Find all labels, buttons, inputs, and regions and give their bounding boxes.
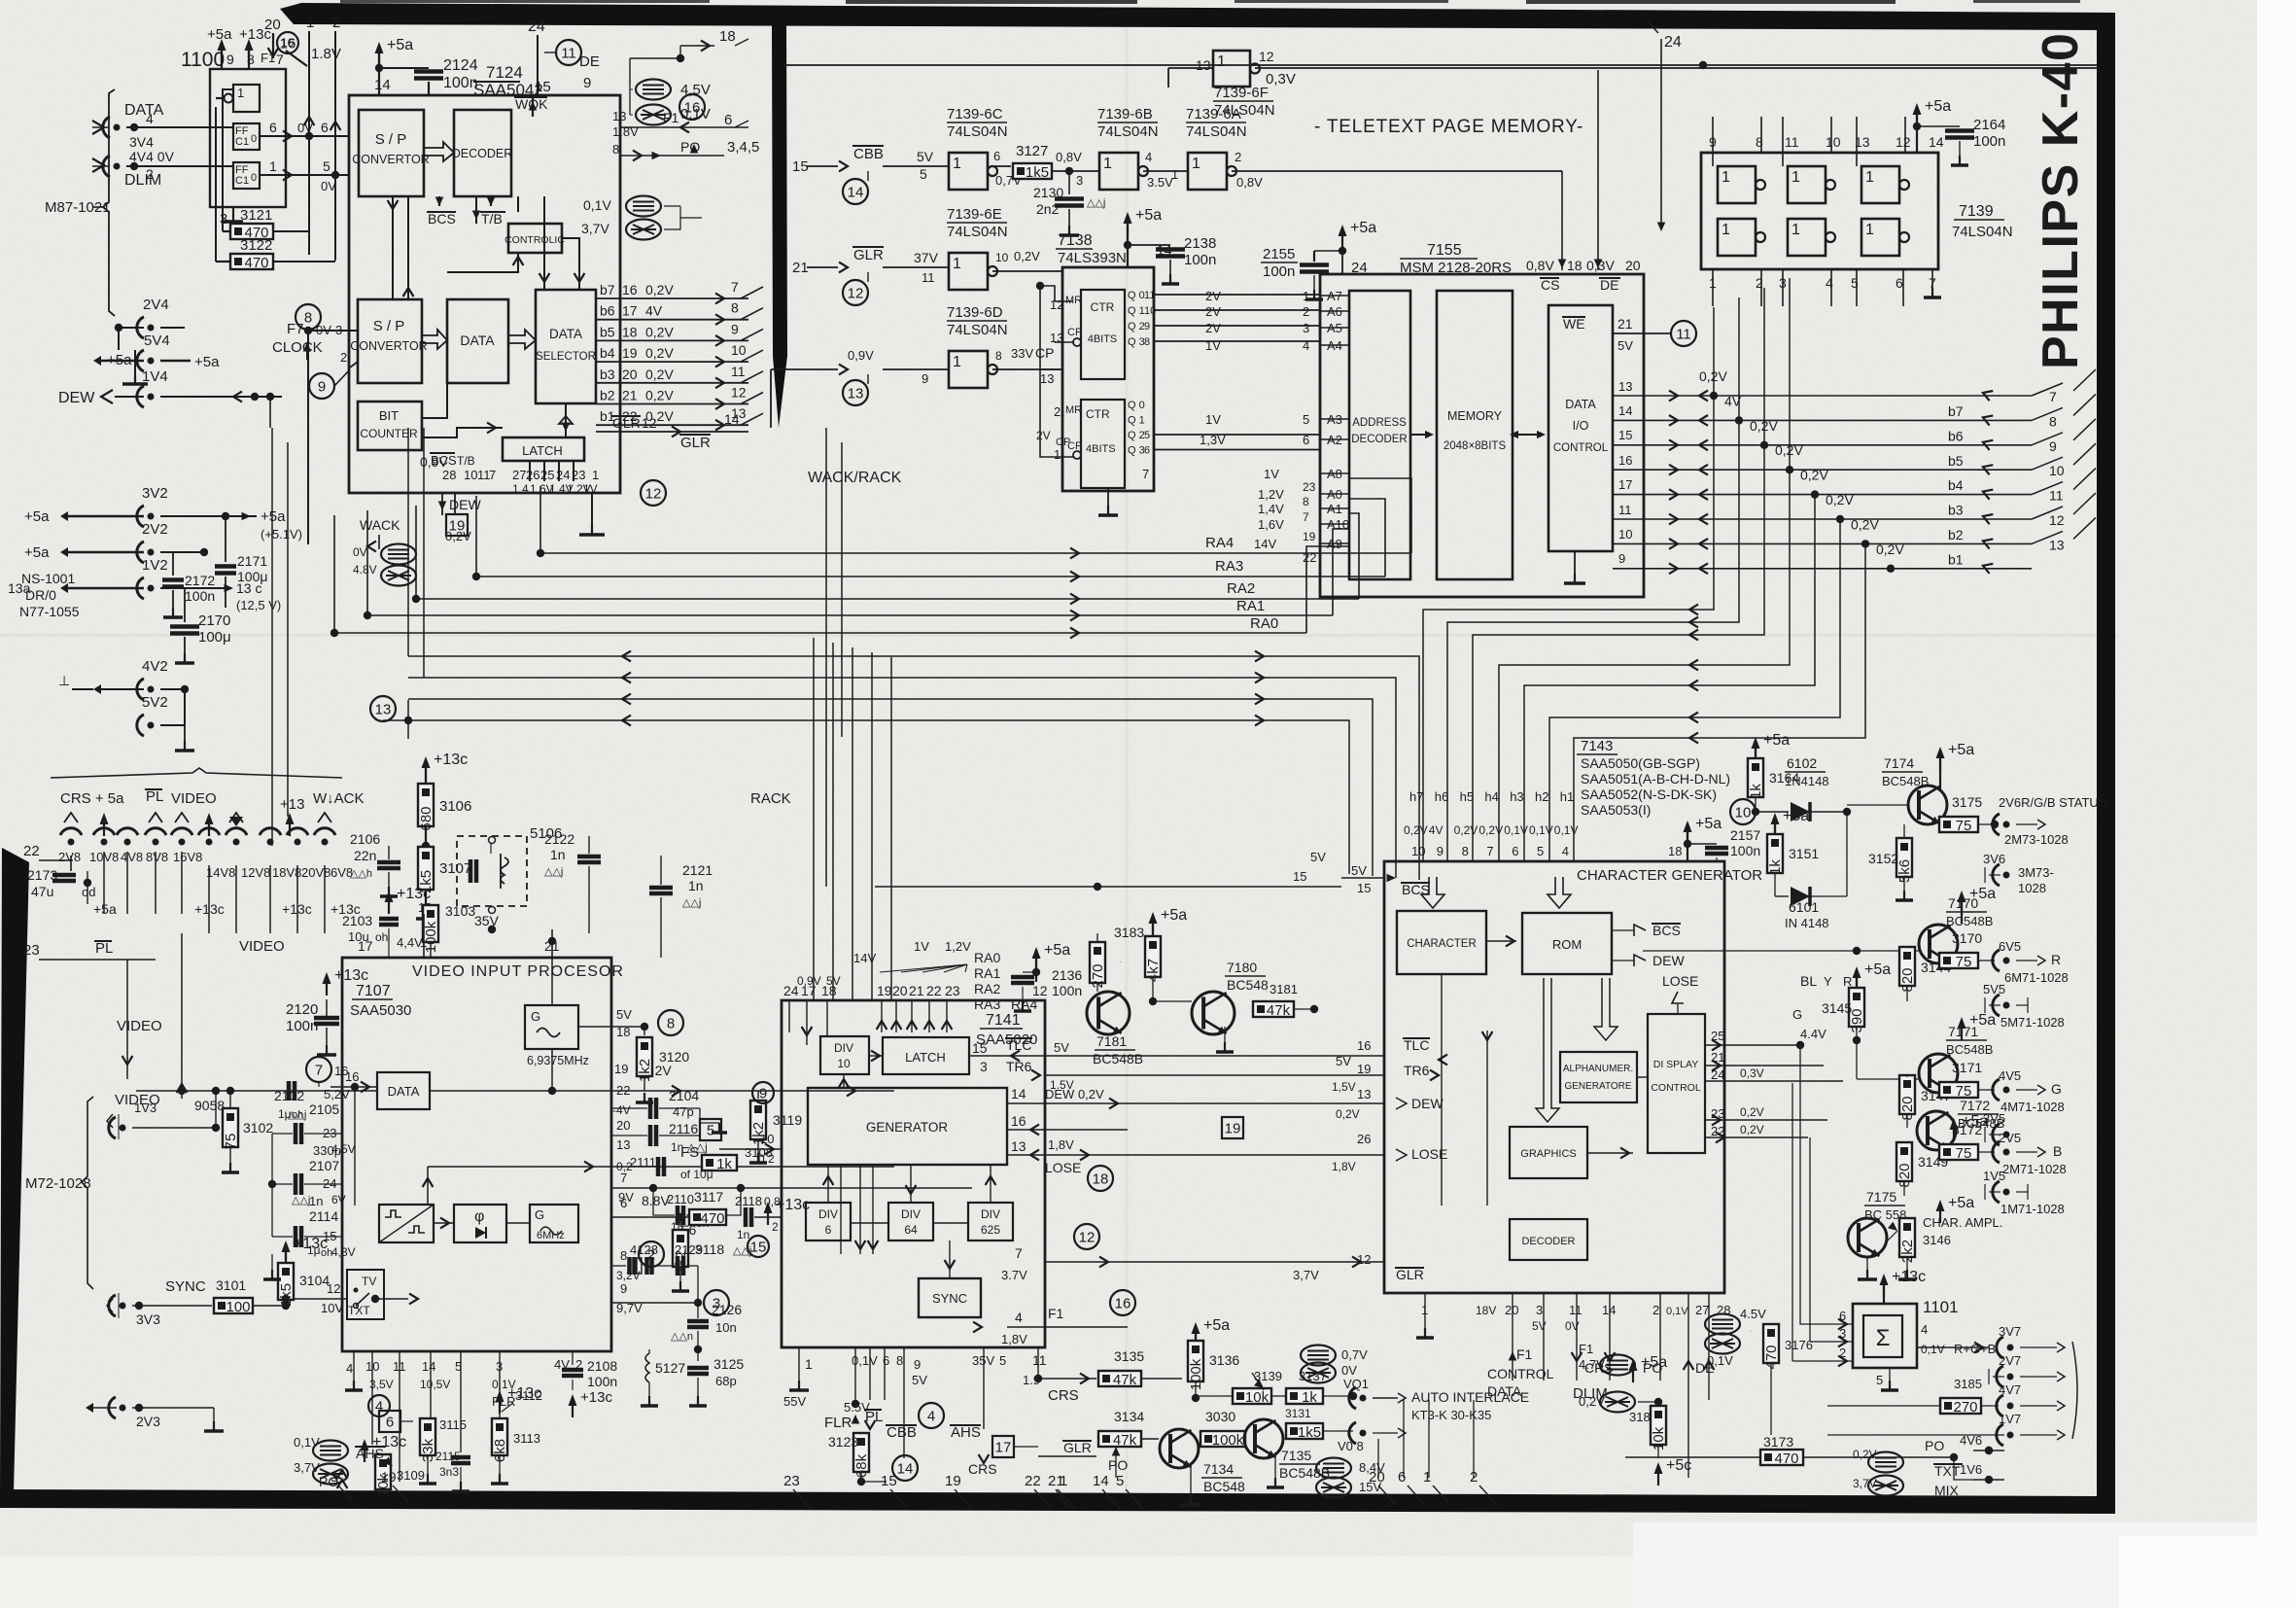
- arrow decoder-memory: [1410, 431, 1434, 438]
- res 3171 75: [1939, 1060, 2065, 1114]
- svg-text:CHAR. AMPL.: CHAR. AMPL.: [1923, 1215, 2002, 1230]
- IC 7155 outline: [1320, 242, 1644, 597]
- svg-text:Y: Y: [1824, 974, 1832, 989]
- svg-text:S / P: S / P: [375, 131, 407, 148]
- svg-text:VIDEO: VIDEO: [171, 790, 217, 807]
- svg-text:14: 14: [897, 1461, 914, 1478]
- svg-text:3,4,5: 3,4,5: [727, 139, 759, 156]
- res 3164 1k: [1730, 732, 1829, 824]
- svg-text:6: 6: [1303, 433, 1309, 447]
- svg-text:+5a: +5a: [1783, 808, 1809, 824]
- svg-text:6: 6: [1144, 445, 1150, 457]
- svg-text:4BITS: 4BITS: [1088, 333, 1118, 345]
- svg-text:7143: 7143: [1581, 738, 1613, 754]
- svg-text:2110: 2110: [667, 1192, 694, 1206]
- svg-text:10: 10: [995, 251, 1009, 264]
- diode 6101: [1775, 812, 1847, 930]
- 2V7 output: [1989, 1353, 2065, 1387]
- svg-text:b4: b4: [1948, 477, 1964, 493]
- svg-text:0,2V: 0,2V: [645, 388, 674, 403]
- svg-text:3: 3: [496, 1359, 503, 1374]
- svg-text:47u: 47u: [31, 884, 53, 899]
- connector row voltages: [58, 850, 353, 880]
- IC 7143 type list: [1577, 738, 1730, 818]
- svg-text:18: 18: [719, 28, 736, 45]
- svg-text:3131: 3131: [1285, 1407, 1311, 1420]
- svg-text:100n: 100n: [1973, 133, 2005, 150]
- svg-text:DE: DE: [579, 53, 600, 70]
- res 3123 6k8: [783, 1394, 918, 1486]
- sq6 33k 3115: [379, 1411, 467, 1484]
- svg-text:1k5: 1k5: [1026, 164, 1049, 181]
- svg-text:+5a: +5a: [1641, 1354, 1667, 1371]
- block DIV625: [968, 1203, 1013, 1241]
- svg-text:8: 8: [731, 300, 739, 316]
- svg-text:15: 15: [750, 1240, 767, 1256]
- svg-text:1,2V: 1,2V: [945, 939, 971, 954]
- svg-text:DIV: DIV: [981, 1207, 1000, 1221]
- svg-text:TXT: TXT: [1934, 1463, 1961, 1479]
- VQ1 connector: [1343, 1377, 1529, 1422]
- svg-text:3: 3: [980, 1059, 988, 1074]
- cap 2130 2n2: [1033, 171, 1105, 235]
- svg-text:MIX: MIX: [1934, 1483, 1960, 1498]
- svg-text:11: 11: [731, 364, 746, 379]
- svg-text:75: 75: [223, 1134, 239, 1150]
- svg-text:24: 24: [556, 468, 570, 482]
- svg-text:BC548: BC548: [1203, 1479, 1245, 1494]
- M72-1028 label: [25, 1097, 93, 1289]
- svg-text:3,7V: 3,7V: [581, 221, 609, 236]
- svg-text:2048×8BITS: 2048×8BITS: [1444, 440, 1507, 452]
- pin12 sync left: [292, 1242, 418, 1315]
- svg-text:0,9V: 0,9V: [797, 974, 821, 988]
- svg-text:1: 1: [953, 256, 961, 272]
- svg-text:1,4V: 1,4V: [1258, 502, 1284, 516]
- cap 2173 47u: [27, 856, 117, 917]
- cap 2172 100n: [162, 552, 215, 617]
- svg-text:4,3V: 4,3V: [331, 1245, 356, 1259]
- svg-text:0,2V: 0,2V: [645, 367, 674, 382]
- IC 1101 block: [1853, 1298, 1959, 1368]
- svg-text:3: 3: [1076, 173, 1083, 188]
- left rail 3V2 rows: [24, 485, 302, 542]
- svg-text:7139-6C: 7139-6C: [947, 106, 1003, 122]
- svg-text:20: 20: [1369, 1469, 1385, 1486]
- svg-text:+5a: +5a: [1969, 1012, 1996, 1029]
- pin16 DATA left: [324, 1069, 377, 1206]
- block DIV10: [820, 1036, 869, 1074]
- svg-text:3V6: 3V6: [1983, 852, 2005, 866]
- svg-text:LATCH: LATCH: [522, 443, 563, 458]
- memory addr pins left: [1303, 289, 1349, 447]
- svg-text:24: 24: [1664, 34, 1682, 51]
- memory CS DE labels: [1526, 258, 1641, 293]
- svg-text:11: 11: [922, 270, 935, 285]
- svg-text:7: 7: [731, 279, 739, 295]
- svg-text:BCS: BCS: [431, 453, 457, 468]
- svg-text:1n: 1n: [309, 1194, 323, 1208]
- svg-text:14: 14: [1011, 1086, 1026, 1101]
- pin6 8.8V F6: [611, 1189, 782, 1267]
- svg-text:+5a: +5a: [1203, 1317, 1230, 1334]
- svg-text:DEW: DEW: [1652, 953, 1685, 968]
- svg-text:27: 27: [1695, 1303, 1709, 1317]
- DATA input connector: [92, 102, 233, 138]
- svg-text:1,2V: 1,2V: [1258, 487, 1284, 502]
- svg-text:11: 11: [393, 1359, 406, 1374]
- 7141 bottom pins: [789, 1347, 1047, 1390]
- svg-text:9: 9: [620, 1281, 627, 1296]
- svg-text:4: 4: [1303, 338, 1309, 353]
- svg-text:1: 1: [953, 354, 961, 370]
- svg-text:DATA: DATA: [460, 332, 495, 348]
- svg-text:0,2V: 0,2V: [645, 282, 674, 297]
- svg-text:b1: b1: [1948, 551, 1964, 567]
- svg-text:3170: 3170: [1952, 930, 1982, 946]
- svg-text:T/B: T/B: [481, 211, 503, 227]
- block S/P convertor 2: [350, 299, 427, 383]
- scope 4.5V 0.1V top: [630, 80, 711, 125]
- transistor 7174: [1847, 742, 1974, 824]
- svg-text:1V: 1V: [1205, 338, 1221, 353]
- svg-text:1100: 1100: [181, 49, 225, 71]
- svg-text:74LS04N: 74LS04N: [947, 322, 1008, 338]
- res 3176 470: [1705, 1307, 1813, 1435]
- block phase: [454, 1205, 506, 1242]
- input 13 CP: [771, 348, 949, 428]
- svg-text:13: 13: [1357, 1087, 1371, 1101]
- svg-text:BCS: BCS: [1652, 923, 1681, 938]
- svg-text:23: 23: [23, 942, 40, 959]
- svg-text:100n: 100n: [1184, 252, 1216, 268]
- wire RA2: [412, 506, 1359, 604]
- pin9 line circ3: [611, 1290, 729, 1315]
- svg-text:14: 14: [1093, 1473, 1109, 1489]
- svg-text:6: 6: [620, 1196, 627, 1210]
- svg-text:4V6: 4V6: [1960, 1433, 1982, 1448]
- svg-text:12: 12: [642, 415, 657, 431]
- svg-text:0,2V: 0,2V: [1740, 1105, 1764, 1119]
- block ROM: [1522, 913, 1612, 974]
- svg-text:14: 14: [1618, 403, 1632, 418]
- svg-text:2105: 2105: [309, 1101, 339, 1117]
- svg-text:3: 3: [1536, 1303, 1543, 1317]
- svg-text:0,8V: 0,8V: [1236, 175, 1263, 190]
- svg-text:3151: 3151: [1789, 846, 1819, 861]
- svg-text:1: 1: [1303, 289, 1309, 303]
- svg-text:9: 9: [731, 321, 739, 336]
- svg-text:3,5V: 3,5V: [369, 1378, 394, 1391]
- svg-text:DIV: DIV: [901, 1207, 921, 1221]
- svg-text:19: 19: [614, 1062, 628, 1076]
- svg-text:15: 15: [881, 1473, 897, 1489]
- block GRAPHICS: [1510, 1127, 1587, 1178]
- svg-text:DLIM: DLIM: [124, 172, 161, 189]
- block GENERATOR: [808, 1074, 1007, 1165]
- svg-text:100n: 100n: [185, 588, 215, 604]
- resistor 3122 470: [216, 107, 335, 271]
- svg-text:20: 20: [1505, 1303, 1518, 1317]
- svg-text:4V: 4V: [1724, 393, 1742, 408]
- svg-text:BC548B: BC548B: [1946, 1042, 1993, 1057]
- svg-text:b5: b5: [600, 324, 615, 339]
- svg-text:+5a: +5a: [93, 901, 117, 917]
- res 3173 470: [1625, 1434, 1958, 1467]
- svg-text:5: 5: [1116, 1473, 1124, 1489]
- svg-text:IN 4148: IN 4148: [1785, 916, 1829, 930]
- svg-text:+5a: +5a: [1350, 220, 1376, 236]
- svg-text:2129: 2129: [675, 1242, 703, 1257]
- svg-text:3119: 3119: [773, 1112, 802, 1128]
- svg-text:625: 625: [981, 1223, 1000, 1237]
- svg-text:4: 4: [1015, 1310, 1023, 1325]
- frame top band: [280, 3, 2115, 30]
- svg-text:3120: 3120: [659, 1049, 689, 1065]
- svg-text:10: 10: [1826, 134, 1841, 150]
- svg-text:2M71-1028: 2M71-1028: [2002, 1162, 2067, 1176]
- buffer arrow 2: [422, 330, 447, 349]
- svg-text:+5a: +5a: [1044, 942, 1070, 959]
- svg-text:47k: 47k: [1113, 1372, 1137, 1388]
- arrow memory-dataio: [1510, 431, 1546, 438]
- DLIM scopes: [1579, 1355, 1662, 1413]
- circ8 node: [296, 304, 358, 544]
- svg-text:0: 0: [251, 172, 257, 184]
- svg-text:3106: 3106: [439, 798, 471, 815]
- svg-text:25: 25: [540, 468, 554, 482]
- svg-text:19: 19: [945, 1473, 961, 1489]
- res 3118 1k2: [672, 1217, 724, 1291]
- svg-text:+13c: +13c: [434, 752, 468, 768]
- svg-text:RA0: RA0: [1250, 615, 1278, 632]
- +13c 1101: [1880, 1269, 1927, 1304]
- svg-text:2114: 2114: [309, 1208, 338, 1224]
- svg-text:R: R: [1843, 974, 1852, 989]
- svg-text:4: 4: [927, 1409, 935, 1425]
- svg-text:5: 5: [920, 166, 927, 182]
- svg-text:GLR: GLR: [1396, 1267, 1424, 1282]
- memory addr pins left2: [1303, 467, 1349, 565]
- svg-text:12: 12: [1357, 1252, 1371, 1267]
- svg-text:BCS: BCS: [428, 211, 456, 227]
- svg-text:9: 9: [226, 52, 234, 67]
- cap 2136 100n: [1011, 942, 1082, 1011]
- svg-text:I/O: I/O: [1573, 419, 1589, 433]
- cap 2115 3n3: [435, 1450, 470, 1491]
- svg-text:3185: 3185: [1954, 1377, 1982, 1391]
- 1V5 connector: [1983, 1169, 2065, 1216]
- res 3181 47k: [1253, 982, 1318, 1019]
- svg-text:0,3V: 0,3V: [1740, 1066, 1764, 1080]
- svg-text:h1: h1: [1560, 789, 1574, 804]
- svg-text:0: 0: [251, 133, 257, 145]
- svg-text:SAA5030: SAA5030: [350, 1002, 411, 1019]
- svg-text:21: 21: [909, 983, 924, 998]
- svg-text:13 c: 13 c: [236, 580, 261, 596]
- node 2V4: [115, 297, 185, 350]
- block LATCH 7141: [869, 1037, 969, 1074]
- svg-text:2121: 2121: [682, 862, 713, 878]
- svg-text:+5a: +5a: [1763, 732, 1790, 749]
- svg-text:+5a: +5a: [194, 354, 220, 370]
- wire RA4: [537, 478, 1411, 558]
- svg-text:14: 14: [1602, 1303, 1616, 1317]
- svg-text:VQ1: VQ1: [1343, 1377, 1369, 1391]
- svg-text:14: 14: [422, 1359, 435, 1374]
- inverter gate in 1100: [216, 85, 260, 112]
- svg-text:WACK: WACK: [360, 517, 400, 533]
- overbrace connector group: [51, 768, 342, 778]
- svg-text:5: 5: [455, 1359, 462, 1374]
- svg-text:3M73-: 3M73-: [2018, 865, 2054, 880]
- svg-text:12: 12: [645, 486, 662, 503]
- svg-text:10n: 10n: [715, 1320, 737, 1335]
- svg-text:3123: 3123: [828, 1434, 858, 1450]
- svg-text:15: 15: [792, 158, 809, 175]
- svg-text:16: 16: [1011, 1113, 1026, 1129]
- svg-text:b5: b5: [1948, 453, 1964, 469]
- svg-text:2n2: 2n2: [1036, 201, 1060, 217]
- svg-text:△△j: △△j: [544, 866, 563, 878]
- svg-text:6: 6: [269, 120, 277, 135]
- 7143 left pins: [1128, 863, 1447, 1282]
- svg-text:2: 2: [340, 350, 347, 365]
- svg-text:6V: 6V: [331, 1193, 346, 1206]
- svg-text:MSM 2128-20RS: MSM 2128-20RS: [1400, 260, 1512, 276]
- svg-text:3117: 3117: [694, 1189, 723, 1205]
- svg-text:8: 8: [1144, 336, 1150, 348]
- svg-text:10: 10: [837, 1057, 851, 1070]
- svg-text:10: 10: [365, 1359, 379, 1374]
- res 3170 75: [1939, 930, 2069, 985]
- svg-text:-4V: -4V: [612, 1103, 631, 1117]
- res 3109 10k: [361, 1434, 425, 1497]
- svg-text:16: 16: [622, 282, 638, 297]
- svg-text:12: 12: [2049, 512, 2065, 528]
- svg-text:12: 12: [1032, 983, 1048, 998]
- svg-text:5: 5: [1303, 412, 1309, 427]
- svg-text:7: 7: [620, 1171, 627, 1185]
- svg-text:CRS: CRS: [1048, 1387, 1079, 1404]
- svg-text:CONTROL: CONTROL: [1487, 1366, 1554, 1381]
- svg-text:GENERATORE: GENERATORE: [1564, 1081, 1631, 1092]
- svg-text:S / P: S / P: [373, 318, 405, 334]
- svg-text:MR: MR: [1065, 295, 1082, 306]
- svg-text:1: 1: [1217, 53, 1226, 70]
- internal wires SAA5042: [388, 196, 585, 481]
- bus nest mid: [408, 651, 1419, 880]
- block data io control: [1548, 305, 1613, 551]
- wires between blocks 7107: [424, 1109, 611, 1228]
- res 3106 680 vertical: [418, 752, 471, 850]
- svg-text:7138: 7138: [1058, 232, 1093, 249]
- 5V BCS line: [875, 850, 1341, 891]
- svg-text:10: 10: [1411, 844, 1425, 858]
- svg-text:7139-6E: 7139-6E: [947, 206, 1002, 223]
- svg-text:b4: b4: [600, 345, 615, 361]
- svg-text:0,2V: 0,2V: [645, 324, 674, 339]
- svg-text:6101: 6101: [1789, 899, 1819, 915]
- svg-text:13: 13: [612, 109, 626, 123]
- PO TXT MIX bottom: [1853, 1433, 2004, 1498]
- data bus lines right: [1644, 278, 2032, 574]
- svg-text:0,1V: 0,1V: [583, 197, 611, 213]
- svg-text:100n: 100n: [443, 75, 478, 91]
- svg-text:VIDEO: VIDEO: [239, 938, 285, 955]
- 7141 pin4 F1: [846, 1290, 1135, 1346]
- 7141 inner wires: [823, 1165, 996, 1278]
- svg-text:3146: 3146: [1923, 1233, 1951, 1247]
- svg-text:FS: FS: [680, 1144, 699, 1161]
- svg-text:14V: 14V: [1254, 537, 1276, 551]
- svg-text:+13c: +13c: [282, 901, 312, 917]
- svg-text:1V: 1V: [914, 939, 929, 954]
- long verticals fold area: [826, 428, 842, 887]
- res 3107 1k5 vertical: [416, 847, 471, 919]
- svg-text:2111: 2111: [630, 1155, 656, 1170]
- svg-text:8: 8: [1756, 134, 1763, 150]
- svg-text:8: 8: [667, 1016, 675, 1032]
- svg-text:0,1V: 0,1V: [1666, 1306, 1688, 1317]
- svg-text:0,2V: 0,2V: [1404, 823, 1428, 837]
- V08 scopes: [1301, 1346, 1406, 1498]
- svg-text:1: 1: [1792, 222, 1800, 238]
- svg-text:2V5: 2V5: [1999, 1131, 2021, 1145]
- svg-text:12: 12: [731, 385, 747, 401]
- svg-text:0,1V: 0,1V: [1529, 823, 1553, 837]
- pot 10k 3139: [1196, 1369, 1285, 1406]
- svg-text:F7: F7: [287, 321, 304, 337]
- svg-text:2122: 2122: [544, 831, 574, 847]
- cap 2120 100n: [286, 967, 368, 1055]
- sheet title PHILIPS K-40: [2033, 32, 2089, 369]
- resistor 3121 470: [223, 89, 309, 241]
- svg-text:15: 15: [972, 1040, 988, 1056]
- svg-text:DR/0: DR/0: [25, 587, 56, 603]
- svg-text:b2: b2: [1948, 527, 1964, 542]
- svg-text:SYNC: SYNC: [165, 1278, 206, 1295]
- svg-text:M72-1028: M72-1028: [25, 1175, 91, 1192]
- svg-text:RA0: RA0: [974, 950, 1000, 965]
- svg-text:0,2V: 0,2V: [1740, 1123, 1764, 1136]
- svg-text:20: 20: [622, 367, 638, 382]
- svg-text:+5a: +5a: [1695, 816, 1722, 832]
- svg-text:5: 5: [323, 158, 330, 174]
- svg-text:0,2V: 0,2V: [445, 529, 471, 543]
- svg-text:3183: 3183: [1114, 925, 1144, 940]
- svg-text:0,2V: 0,2V: [1750, 418, 1778, 434]
- 7141 pin7 3.7V: [1001, 1224, 1128, 1282]
- svg-text:0,2V: 0,2V: [1014, 249, 1040, 263]
- svg-text:9: 9: [583, 75, 591, 91]
- svg-text:DATA: DATA: [1487, 1383, 1522, 1399]
- svg-text:+5a: +5a: [24, 508, 50, 525]
- svg-text:3107: 3107: [439, 860, 471, 877]
- F7 CLOCK labels: [272, 321, 323, 360]
- svg-text:55V: 55V: [783, 1394, 806, 1409]
- svg-text:12: 12: [1896, 134, 1911, 150]
- svg-text:9: 9: [759, 1086, 767, 1102]
- svg-text:5: 5: [999, 1353, 1006, 1368]
- svg-text:11: 11: [1144, 290, 1155, 301]
- svg-text:1: 1: [1722, 222, 1730, 238]
- svg-text:20V8: 20V8: [301, 865, 330, 880]
- svg-text:b3: b3: [1948, 503, 1964, 518]
- svg-text:DEW: DEW: [1411, 1096, 1444, 1111]
- svg-text:RA4: RA4: [1205, 535, 1234, 551]
- svg-text:1.8V: 1.8V: [311, 46, 341, 62]
